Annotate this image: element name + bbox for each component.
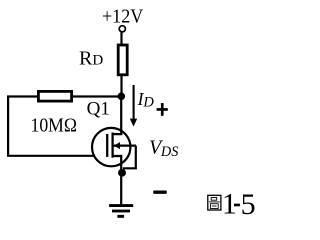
Q1 gate bar — [106, 134, 108, 157]
node: source junction — [118, 169, 126, 177]
transistor Q1 n-MOSFET — [92, 128, 136, 166]
svg-text:+12V: +12V — [102, 6, 144, 28]
wire: drain node to 10M resistor (horizontal) — [7, 95, 121, 97]
Q1 body arrow head — [114, 142, 120, 149]
current arrow ID — [130, 85, 137, 127]
wire: gate lead — [7, 155, 108, 157]
svg-text:ID: ID — [137, 89, 155, 110]
wire: terminal to RD — [120, 32, 122, 45]
Q1 body line — [114, 144, 136, 146]
wire: left vertical — [7, 96, 9, 156]
Q1 drain stub — [112, 133, 122, 135]
Q1 body circle — [92, 128, 130, 166]
svg-text:Q1: Q1 — [87, 99, 110, 120]
Q1 channel bar — [111, 133, 113, 158]
svg-text:5: 5 — [241, 188, 256, 221]
svg-text:VDS: VDS — [149, 137, 179, 160]
label plus — [157, 103, 168, 116]
wire: RD to drain node — [120, 76, 122, 97]
wire: Q1 source down to ground — [120, 156, 122, 205]
ground bar 1 — [109, 204, 133, 207]
caption glyph 圖 — [208, 195, 221, 210]
ground bar 3 — [117, 215, 124, 218]
Q1 source stub — [112, 155, 122, 157]
node: drain junction — [118, 93, 126, 101]
svg-text:10MΩ: 10MΩ — [31, 115, 78, 137]
resistor RD (body) — [118, 45, 127, 75]
wire: body-source tie (bracket) — [123, 146, 136, 169]
ground bar 2 — [112, 210, 130, 213]
svg-text:RD: RD — [79, 48, 103, 70]
ground symbol — [109, 204, 133, 218]
power terminal (open circle) — [119, 26, 125, 32]
resistor 10MΩ (body) — [38, 91, 71, 101]
label minus — [153, 191, 167, 194]
wire: drain node into Q1 — [120, 97, 122, 136]
